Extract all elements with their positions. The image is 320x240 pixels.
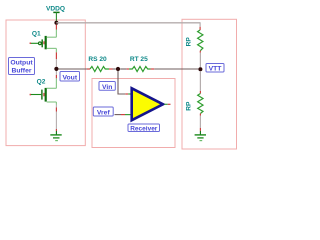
wire right rail down to RP bbox=[199, 22, 201, 27]
wire Vin tap bbox=[118, 71, 125, 94]
svg-text:RP: RP bbox=[186, 101, 193, 111]
label box Receiver bbox=[128, 124, 160, 132]
label box Output Buffer bbox=[9, 58, 35, 75]
power VDDQ symbol bbox=[53, 12, 59, 22]
pin Q1 drain red bbox=[55, 25, 57, 30]
svg-text:RS 20: RS 20 bbox=[88, 56, 107, 63]
receiver block box bbox=[92, 79, 175, 148]
pin RP2 bottom red bbox=[199, 114, 201, 116]
svg-text:Vin: Vin bbox=[102, 84, 112, 91]
wire Q2 source down bbox=[55, 105, 57, 108]
pin Q2 drain red bbox=[55, 75, 57, 78]
transistor Q1 bbox=[30, 30, 57, 53]
svg-text:Vref: Vref bbox=[97, 110, 111, 117]
wire Q1 source to Vout node bbox=[55, 59, 57, 67]
termination block box bbox=[182, 19, 237, 149]
pin right ground red bbox=[199, 128, 201, 131]
svg-text:Output: Output bbox=[10, 60, 33, 67]
wire VTT node down bbox=[199, 71, 201, 91]
node Vout junction bbox=[54, 67, 58, 71]
svg-text:Q2: Q2 bbox=[37, 78, 46, 85]
label box Vin bbox=[99, 82, 115, 91]
lead Vref green bbox=[125, 114, 132, 116]
output buffer block box bbox=[6, 20, 85, 146]
pin Q1 source red bbox=[55, 52, 57, 59]
node Vin junction bbox=[116, 67, 120, 71]
resistor RS 20 bbox=[90, 67, 109, 72]
resistor RT 25 bbox=[129, 67, 151, 72]
pin RP1 bottom red bbox=[199, 51, 201, 53]
pin output red bbox=[168, 103, 171, 105]
svg-text:Buffer: Buffer bbox=[11, 68, 31, 75]
wire RP1 to VTT node bbox=[199, 53, 201, 68]
wire Vout node to Q2 drain bbox=[55, 71, 57, 75]
node VTT junction bbox=[198, 67, 202, 71]
svg-text:RT 25: RT 25 bbox=[130, 56, 148, 63]
pin RS left red bbox=[87, 68, 90, 70]
resistor RP upper bbox=[198, 30, 203, 51]
ground left bbox=[50, 131, 61, 141]
pin RS right red bbox=[109, 68, 113, 70]
svg-text:RP: RP bbox=[186, 37, 193, 47]
node VDDQ junction bbox=[54, 21, 58, 25]
resistor RP lower bbox=[198, 94, 203, 114]
wire Vout to RS bbox=[58, 68, 87, 70]
op-amp receiver triangle bbox=[132, 88, 163, 120]
label box Vout bbox=[60, 72, 80, 82]
lead output green bbox=[164, 103, 167, 105]
svg-text:VDDQ: VDDQ bbox=[46, 5, 65, 12]
transistor Q2 bbox=[30, 78, 57, 104]
pin RT left red bbox=[127, 68, 130, 70]
wire RT to VTT node bbox=[154, 68, 198, 70]
svg-text:Q1: Q1 bbox=[32, 31, 41, 38]
svg-text:Receiver: Receiver bbox=[130, 125, 158, 132]
svg-text:Vout: Vout bbox=[62, 75, 77, 82]
svg-text:VTT: VTT bbox=[209, 66, 223, 73]
label box VTT bbox=[206, 64, 224, 73]
pin RT right red bbox=[151, 68, 155, 70]
wire top rail VDDQ to right bbox=[56, 22, 200, 24]
pin ground red bbox=[55, 129, 57, 131]
ground right bbox=[195, 131, 206, 141]
lead Vin green bbox=[128, 93, 132, 95]
pin Q2 source red bbox=[55, 108, 57, 112]
label box Vref bbox=[93, 107, 113, 117]
pin Vin red bbox=[125, 93, 128, 95]
pin RP1 top red bbox=[199, 27, 201, 30]
wire to left ground bbox=[55, 112, 57, 130]
wire RS to node bbox=[113, 68, 116, 70]
wire node to RT bbox=[120, 68, 126, 70]
pin Vref red bbox=[121, 114, 125, 116]
wire Vref stub bbox=[115, 114, 122, 116]
pin RP2 top red bbox=[199, 91, 201, 94]
wire RP2 to ground bbox=[199, 116, 201, 129]
